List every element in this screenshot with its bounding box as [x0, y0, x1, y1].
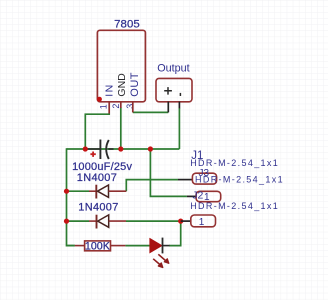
svg-text:1N4007: 1N4007 — [78, 202, 118, 214]
capacitor C1 left plate — [99, 140, 101, 160]
svg-text:1N4007: 1N4007 — [77, 172, 117, 184]
svg-text:1: 1 — [199, 217, 205, 228]
capacitor C1 plus sign — [90, 152, 95, 157]
svg-text:HDR-M-2.54_1x1: HDR-M-2.54_1x1 — [190, 201, 279, 211]
svg-text:GND: GND — [116, 73, 128, 97]
Output + symbol — [164, 87, 172, 95]
diode D2 cathode bar — [96, 215, 98, 229]
LED1 arrow 1 — [158, 254, 169, 263]
Output + pin stub — [167, 102, 169, 113]
svg-text:2: 2 — [111, 104, 121, 109]
IC1 pin 2 stub — [120, 102, 122, 108]
capacitor C1 left lead — [86, 148, 100, 150]
wire: left rail to diode D2 anode — [67, 220, 90, 222]
LED1 arrow 2 — [153, 259, 163, 268]
junction: left rail at D2 row — [64, 219, 69, 224]
svg-text:OUT: OUT — [129, 72, 141, 97]
diode D1 triangle — [98, 185, 109, 197]
LED1 cathode bar — [162, 238, 164, 254]
wire: left rail bottom to resistor R1 — [67, 245, 75, 247]
Output - pin stub — [178, 102, 180, 109]
wire: left rail down — [67, 148, 75, 245]
resistor R1 body — [85, 241, 111, 251]
LED1 triangle (filled) — [150, 239, 162, 253]
svg-text:IN: IN — [103, 83, 115, 97]
wire: left rail to diode D1 anode — [67, 190, 90, 192]
svg-text:7805: 7805 — [114, 18, 140, 30]
connector J1 body — [192, 173, 216, 184]
svg-text:100K: 100K — [85, 241, 111, 253]
Output - symbol (small tick) — [179, 93, 181, 96]
connector J1 pin stub — [178, 179, 192, 181]
wire: cap row horizontal (GND net) — [67, 148, 180, 150]
svg-text:Output: Output — [157, 63, 189, 75]
junction: pin1 rail at cap row — [83, 146, 88, 151]
connector J3 body — [196, 191, 221, 201]
Output connector X1 body — [156, 78, 192, 101]
voltage regulator IC1 7805 body — [97, 30, 145, 102]
wire: cap row junction down to J2 — [150, 149, 187, 196]
wire: diode D1 cathode jog up to J1 — [126, 180, 178, 192]
wire: IC1 pin3 (OUT) to Output + pin — [133, 111, 169, 113]
resistor R1 right lead — [111, 245, 126, 247]
diode D2 right lead — [109, 220, 126, 222]
svg-text:J2: J2 — [192, 189, 203, 201]
connector J3 pin stub — [187, 195, 196, 197]
IC1 pin 1 stub — [108, 102, 110, 114]
svg-text:HDR-M-2.54_1x1: HDR-M-2.54_1x1 — [195, 175, 284, 185]
diode D1 anode lead — [89, 190, 96, 192]
junction: left rail at D1 row — [64, 189, 69, 194]
junction: cap row to J2 branch — [148, 146, 153, 151]
wire: diode D2 cathode to junction at J3 row — [126, 220, 181, 222]
capacitor C1 right plate (curved) — [106, 140, 109, 159]
connector J2 body — [191, 215, 216, 227]
capacitor C1 right lead — [108, 148, 113, 150]
IC1 pin 3 stub — [132, 102, 134, 113]
IC1 pin1 red dot marker — [97, 97, 102, 102]
wire: IC1 pin1 (IN) to left rail — [85, 113, 109, 149]
junction: GND pin at cap row — [118, 146, 123, 151]
svg-text:HDR-M-2.54_1x1: HDR-M-2.54_1x1 — [190, 158, 279, 168]
diode D1 right lead — [109, 190, 127, 192]
connector J2 pin stub — [181, 220, 191, 222]
diode D1 cathode bar — [95, 185, 97, 199]
resistor R1 left lead — [75, 245, 85, 247]
wire: junction down to LED cathode — [169, 221, 181, 246]
diode D2 anode lead — [89, 220, 97, 222]
LED1 cathode lead — [163, 245, 170, 247]
diode D2 triangle — [98, 215, 109, 227]
wire: Output - pin down to cap row — [178, 108, 180, 149]
wire: resistor R1 right lead to LED anode — [125, 245, 149, 247]
svg-text:1: 1 — [98, 104, 108, 109]
wire: IC1 pin2 (GND) down to cap row — [120, 108, 122, 150]
junction: D2/LED/J row — [178, 219, 183, 224]
